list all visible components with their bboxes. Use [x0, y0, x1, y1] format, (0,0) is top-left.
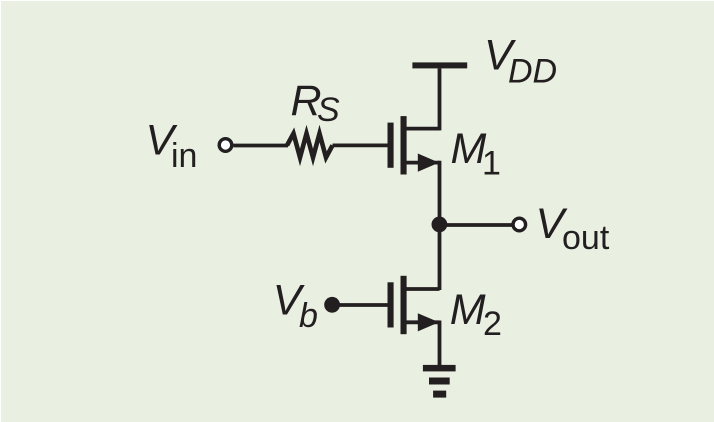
label Vin — [146, 117, 198, 176]
wire VDD to M1 drain — [438, 68, 442, 130]
wire Vb to M2 gate — [332, 303, 388, 307]
wire M1 source to output node — [438, 161, 442, 225]
ground — [423, 365, 456, 398]
resistor RS — [287, 134, 333, 158]
wire output node to M2 drain — [438, 225, 442, 290]
wire input terminal to RS — [233, 144, 288, 148]
label M1 — [451, 125, 501, 182]
label Vout — [536, 200, 610, 257]
node output junction — [432, 217, 448, 233]
svg-text:in: in — [171, 137, 197, 175]
node Vb terminal — [324, 297, 340, 313]
svg-text:S: S — [317, 91, 340, 129]
output terminal — [513, 218, 526, 231]
svg-text:out: out — [562, 219, 610, 257]
transistor M1 — [388, 116, 440, 174]
label Vb — [273, 277, 318, 335]
label RS — [291, 77, 341, 129]
transistor M2 — [388, 276, 440, 334]
input terminal — [219, 139, 232, 152]
wire RS to M1 gate — [333, 143, 389, 147]
power VDD bar — [412, 62, 467, 68]
svg-text:2: 2 — [483, 305, 502, 343]
svg-text:b: b — [299, 297, 318, 335]
svg-text:1: 1 — [482, 145, 501, 183]
wire M2 source to ground — [438, 321, 442, 369]
label VDD — [484, 32, 557, 91]
label M2 — [450, 286, 502, 343]
svg-text:M: M — [450, 286, 486, 334]
svg-text:DD: DD — [508, 52, 557, 90]
wire output node to Vout terminal — [440, 223, 513, 227]
